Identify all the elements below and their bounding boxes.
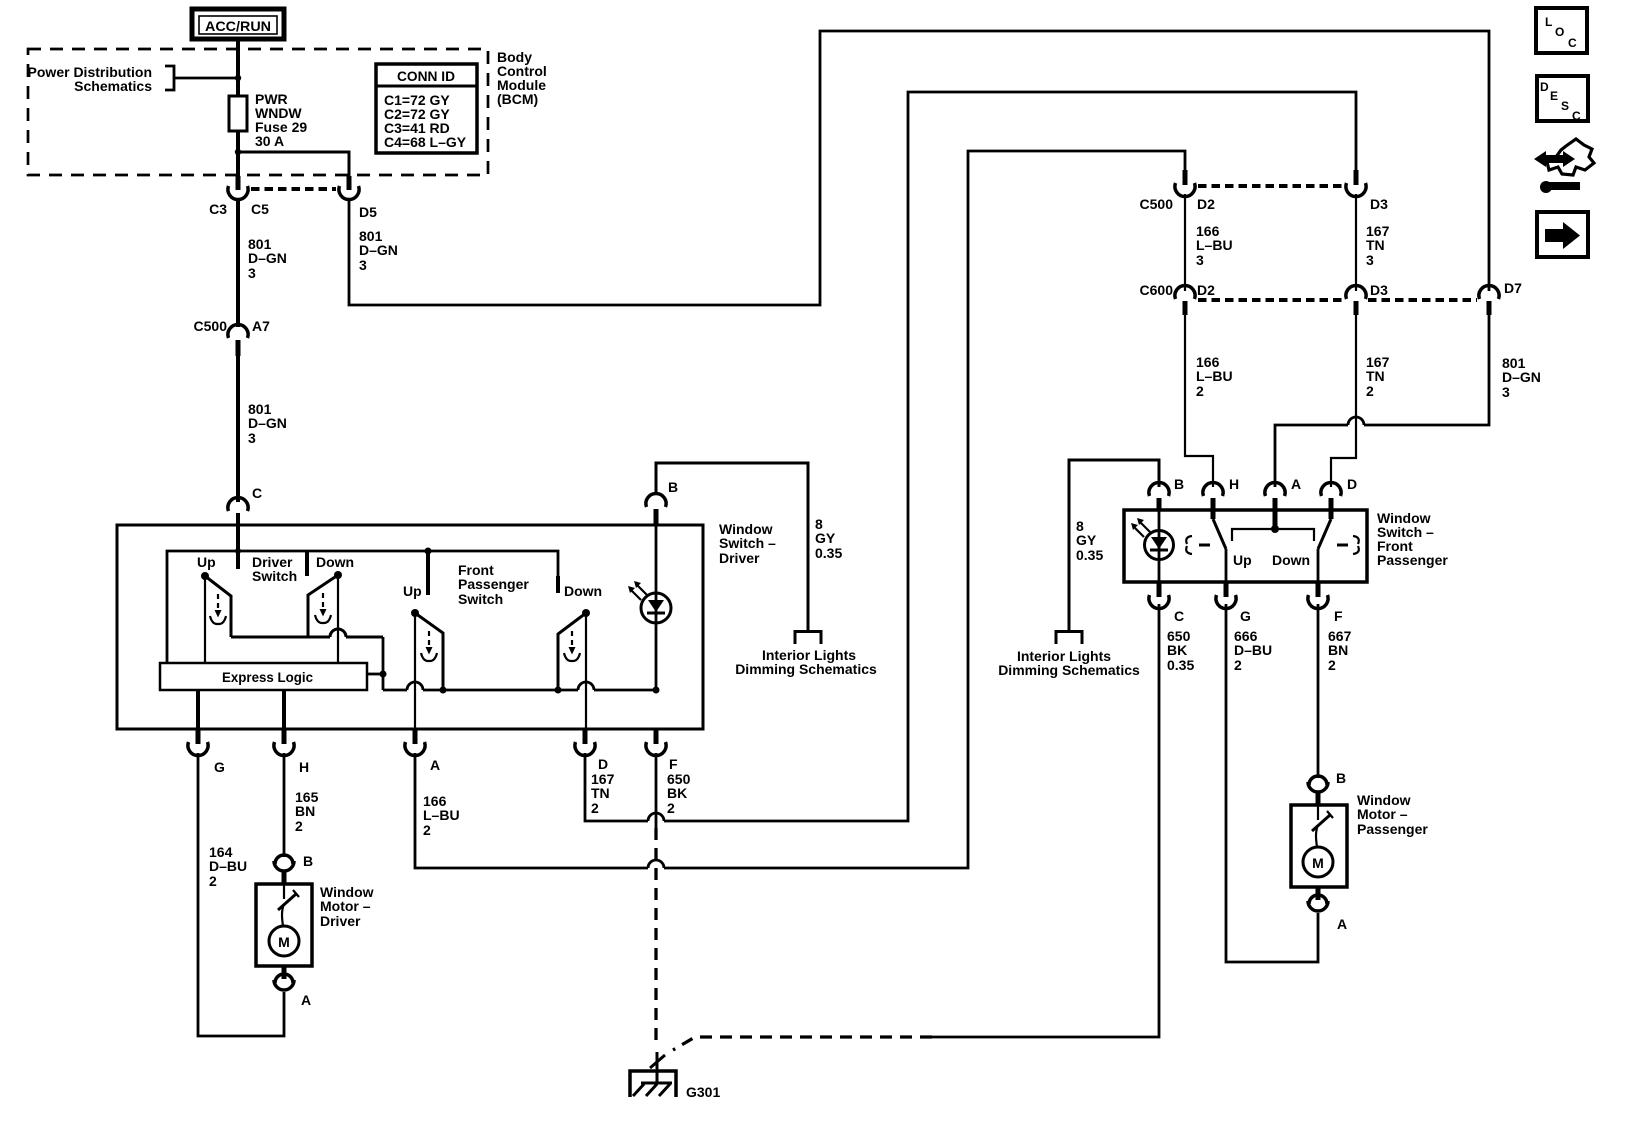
wire fuse to BCM edge: [236, 131, 240, 176]
passenger switch pin F: [1308, 582, 1328, 609]
wire hop over passenger up pivot: [407, 682, 423, 690]
svg-text:2: 2: [295, 818, 303, 834]
wire label 164 D-BU 2 (pin G): [209, 844, 247, 889]
passenger switch pin G: [1216, 582, 1236, 609]
connector C600 D2 pin: [1175, 285, 1195, 315]
wire 166 L-BU 3: [1184, 194, 1186, 291]
svg-text:C5: C5: [251, 201, 269, 217]
wire to express logic junction: [346, 636, 383, 639]
svg-text:2: 2: [1366, 383, 1374, 399]
svg-text:G: G: [214, 759, 225, 775]
svg-text:BN: BN: [1328, 642, 1348, 658]
express logic output to H: [282, 690, 286, 729]
svg-text:2: 2: [591, 800, 599, 816]
svg-text:D–GN: D–GN: [248, 415, 287, 431]
svg-text:CONN ID: CONN ID: [397, 68, 455, 84]
switch blade H-G (up): [1213, 519, 1226, 549]
label window switch driver: [719, 521, 776, 566]
svg-text:GY: GY: [815, 530, 836, 546]
connector D5 pin: [339, 176, 359, 200]
wire 650 BK 0.35 from C to ground path: [932, 604, 1159, 1037]
wire 650 BK dashed to G301: [654, 828, 657, 1048]
wire label 167 TN 2 (pin D): [591, 771, 615, 816]
svg-text:BK: BK: [667, 785, 687, 801]
window switch driver pin B entry: [646, 493, 666, 525]
stationary contact right: [1353, 536, 1359, 554]
svg-text:G: G: [1240, 608, 1251, 624]
stationary contact left: [1186, 536, 1192, 554]
passenger up stationary stub: [426, 551, 430, 595]
power source box ACC/RUN: [192, 9, 284, 39]
contact gap dash left: [1199, 544, 1210, 547]
connector C500 D2 pin: [1175, 170, 1195, 197]
svg-text:BN: BN: [295, 803, 315, 819]
svg-text:3: 3: [248, 265, 256, 281]
svg-text:L–BU: L–BU: [423, 807, 460, 823]
wire hop of 801 over 167 wire: [1348, 417, 1364, 425]
wire 650 BK solid part from F: [655, 753, 658, 828]
window switch front passenger outline: [1124, 510, 1367, 582]
svg-text:3: 3: [248, 430, 256, 446]
wire hop over down pivot: [330, 629, 346, 637]
wire label 650 BK 0.35: [1167, 628, 1194, 673]
passenger up switch blade: [411, 609, 443, 729]
svg-text:Switch: Switch: [458, 591, 503, 607]
svg-text:2: 2: [423, 822, 431, 838]
express logic box: [160, 663, 367, 690]
junction express logic output: [380, 671, 387, 678]
wire to driver switch B from dimming: [656, 463, 808, 631]
svg-text:F: F: [669, 756, 678, 772]
svg-text:B: B: [1174, 476, 1184, 492]
wire label 166 L-BU 3: [1196, 223, 1233, 268]
svg-text:D–GN: D–GN: [248, 250, 287, 266]
svg-text:2: 2: [1328, 657, 1336, 673]
svg-text:Driver: Driver: [719, 550, 760, 566]
connector body dashed C5-D5: [251, 187, 336, 191]
wire down to lower bus: [382, 637, 385, 690]
driver down stationary stub: [305, 551, 309, 576]
passenger switch pin B entry: [1149, 482, 1169, 510]
svg-text:D: D: [598, 756, 608, 772]
svg-text:L: L: [1545, 15, 1552, 29]
label interior lights dimming schematics: [998, 648, 1140, 678]
junction on bus at C: [235, 548, 241, 554]
svg-text:C4=68 L–GY: C4=68 L–GY: [384, 134, 467, 150]
wire 164 D-BU from G to motor A: [198, 753, 284, 1036]
wire passenger dimming feed: [1069, 460, 1159, 631]
junction: [235, 75, 241, 81]
driver down switch blade: [308, 571, 342, 663]
icon double-arrow scroll glyph: [1534, 139, 1594, 193]
svg-text:M: M: [1312, 855, 1324, 871]
junction passenger up blade: [440, 687, 447, 694]
driver switch pin F: [646, 729, 666, 756]
connector C3/C5 pin: [228, 176, 248, 200]
icon LOC navigation box: [1536, 8, 1587, 53]
svg-text:3: 3: [1196, 252, 1204, 268]
wire label 666 D-BU 2: [1234, 628, 1272, 673]
wire hop over F wire: [648, 813, 664, 821]
svg-text:Switch –: Switch –: [719, 535, 776, 551]
svg-text:F: F: [1334, 608, 1343, 624]
svg-text:Express Logic: Express Logic: [222, 669, 313, 685]
svg-text:L–BU: L–BU: [1196, 368, 1233, 384]
svg-text:M: M: [278, 934, 290, 950]
svg-text:D–GN: D–GN: [359, 242, 398, 258]
wire hop over F wire: [648, 860, 664, 868]
svg-text:D3: D3: [1370, 282, 1388, 298]
icon boxed arrow: [1537, 212, 1588, 257]
svg-text:Passenger: Passenger: [1377, 552, 1448, 568]
schematic reference bracket interior lights dimming (passenger): [1056, 632, 1082, 645]
svg-text:D7: D7: [1504, 280, 1522, 296]
wire 167 TN 2 to passenger switch D: [1331, 315, 1356, 487]
wire label 167 TN 3: [1366, 223, 1390, 268]
svg-text:A7: A7: [252, 318, 270, 334]
driver switch pin G: [188, 729, 208, 756]
wire 166 L-BU continues to C500 D2: [664, 151, 1185, 868]
connector C600 D3 pin: [1346, 285, 1366, 315]
wire 666 D-BU from G to motor A: [1226, 604, 1318, 962]
wire label 166 L-BU 2 (pin A): [423, 793, 460, 838]
svg-text:C500: C500: [194, 318, 228, 334]
svg-text:Up: Up: [403, 583, 422, 599]
schematic reference Power Distribution Schematics: [28, 64, 174, 94]
svg-text:0.35: 0.35: [1076, 547, 1103, 563]
svg-text:2: 2: [667, 800, 675, 816]
driver up stationary stub (wire C into box): [236, 525, 240, 569]
BCM dashed outline box: [28, 49, 488, 175]
wire 801 continues to A: [1275, 425, 1348, 487]
svg-text:O: O: [1555, 25, 1564, 39]
svg-text:2: 2: [1234, 657, 1242, 673]
svg-text:Motor –: Motor –: [1357, 806, 1408, 822]
wire tap to power distribution: [174, 77, 238, 80]
svg-text:C500: C500: [1140, 196, 1174, 212]
connector body dashed C600 D2-D3: [1198, 298, 1344, 302]
svg-text:A: A: [430, 757, 440, 773]
lower bus to LED wire: [594, 689, 656, 692]
junction A to bracket: [1271, 525, 1279, 533]
svg-text:BK: BK: [1167, 642, 1187, 658]
svg-text:ACC/RUN: ACC/RUN: [205, 18, 271, 34]
svg-text:A: A: [1291, 476, 1301, 492]
svg-text:3: 3: [1366, 252, 1374, 268]
wire label 801 D-GN 3 at D5: [359, 228, 398, 273]
svg-text:H: H: [1229, 476, 1239, 492]
label Driver Switch: [252, 554, 297, 584]
wire 166 L-BU 2 to passenger switch H: [1185, 315, 1213, 487]
label window motor driver: [320, 884, 374, 929]
svg-text:D: D: [1540, 80, 1549, 94]
svg-text:Dimming Schematics: Dimming Schematics: [735, 661, 877, 677]
svg-text:D3: D3: [1370, 196, 1388, 212]
junction below fuse: [235, 149, 241, 155]
svg-text:D5: D5: [359, 204, 377, 220]
svg-text:C: C: [1572, 109, 1581, 123]
wire label 8 GY 0.35: [1076, 518, 1103, 563]
inline connector window motor driver A: [274, 966, 294, 990]
bus end stub (down stationary contact passenger): [556, 576, 560, 593]
wire label 165 BN 2 (pin H): [295, 789, 319, 834]
wire joining driver blades: [231, 636, 330, 639]
stub from express logic box: [367, 673, 383, 676]
wire 167 TN from driver switch D going up to C500 D3: [585, 753, 648, 821]
wire label 667 BN 2: [1328, 628, 1352, 673]
junction passenger down blade: [555, 687, 562, 694]
ground G301: [630, 1052, 676, 1097]
switch blade D-F (down): [1318, 519, 1331, 549]
svg-text:D–BU: D–BU: [1234, 642, 1272, 658]
svg-text:B: B: [303, 853, 313, 869]
connector C500 D3 pin: [1346, 170, 1366, 197]
label Body Control Module (BCM): [497, 49, 547, 107]
wire label 801 D-GN 3: [248, 401, 287, 446]
CONN ID table: [376, 64, 477, 153]
fuse F29 PWR WNDW 30A: [229, 96, 247, 131]
svg-text:C: C: [252, 485, 262, 501]
driver switch pin D: [575, 729, 595, 756]
lower bus segment: [423, 689, 578, 692]
passenger switch pin A entry: [1265, 482, 1285, 529]
svg-text:B: B: [1336, 770, 1346, 786]
svg-text:30 A: 30 A: [255, 133, 284, 149]
wire branch to D5: [238, 152, 349, 176]
express logic output to G: [196, 690, 200, 729]
svg-text:3: 3: [359, 257, 367, 273]
svg-text:S: S: [1561, 99, 1569, 113]
label window switch front passenger: [1377, 510, 1448, 568]
wire 801 D-GN from C3: [236, 199, 240, 327]
svg-text:E: E: [1550, 89, 1558, 103]
rocker common bracket: [1232, 529, 1314, 541]
svg-text:D–BU: D–BU: [209, 858, 247, 874]
svg-text:3: 3: [1502, 384, 1510, 400]
svg-text:Up: Up: [197, 554, 216, 570]
window motor passenger: [1291, 805, 1347, 887]
inline connector C500/A7: [228, 324, 248, 356]
wire label 650 BK 2 (pin F): [667, 771, 691, 816]
passenger switch pin H entry: [1203, 482, 1223, 519]
svg-text:Down: Down: [316, 554, 354, 570]
svg-text:0.35: 0.35: [815, 545, 842, 561]
svg-text:D–GN: D–GN: [1502, 369, 1541, 385]
svg-text:Passenger: Passenger: [1357, 821, 1428, 837]
svg-text:C600: C600: [1140, 282, 1174, 298]
svg-text:(BCM): (BCM): [497, 91, 538, 107]
LED illumination (driver switch): [628, 525, 671, 690]
svg-text:B: B: [668, 479, 678, 495]
icon DESC navigation box: [1537, 76, 1588, 123]
svg-text:H: H: [299, 759, 309, 775]
svg-text:D2: D2: [1197, 196, 1215, 212]
inline connector window motor driver B: [274, 855, 294, 884]
wire label 8 GY 0.35: [815, 516, 842, 561]
wire label 166 L-BU 2: [1196, 354, 1233, 399]
svg-text:G301: G301: [686, 1084, 720, 1100]
wire 167 TN 3: [1355, 194, 1357, 291]
wire 801 D-GN to driver switch: [236, 356, 240, 502]
internal supply bus: [167, 551, 558, 663]
wire ACC/RUN to fuse: [236, 39, 240, 96]
svg-text:0.35: 0.35: [1167, 657, 1194, 673]
passenger down switch blade: [558, 609, 590, 729]
wire 667 BN from F to motor B: [1317, 604, 1320, 778]
svg-text:TN: TN: [1366, 237, 1385, 253]
contact gap dash right: [1337, 544, 1348, 547]
blade wire to G: [1225, 549, 1228, 582]
window switch driver pin C entry: [228, 497, 248, 525]
wire 166 L-BU from driver switch A going up to C500 D2: [415, 753, 648, 868]
window switch driver outline: [117, 525, 703, 729]
svg-text:Down: Down: [1272, 552, 1310, 568]
connector body dashed C600 D3-D7: [1368, 298, 1477, 302]
wire 801 D-GN from D5 to D7: [349, 31, 1489, 305]
svg-text:2: 2: [1196, 383, 1204, 399]
svg-text:Motor –: Motor –: [320, 898, 371, 914]
lower bus to LED: [383, 689, 407, 692]
svg-text:A: A: [1337, 916, 1347, 932]
svg-text:Schematics: Schematics: [74, 78, 152, 94]
driver switch pin H: [274, 729, 294, 756]
svg-text:Passenger: Passenger: [458, 576, 529, 592]
svg-text:Switch: Switch: [252, 568, 297, 584]
LED illumination (passenger switch): [1131, 510, 1174, 582]
window motor driver: [256, 884, 312, 966]
svg-text:GY: GY: [1076, 532, 1097, 548]
wire 650 BK dashed part to G301: [673, 1037, 932, 1050]
connector C600 D7 pin: [1479, 285, 1499, 315]
svg-text:Down: Down: [564, 583, 602, 599]
wire label 167 TN 2: [1366, 354, 1390, 399]
wire hop over passenger down pivot: [578, 682, 594, 690]
label window motor passenger: [1357, 792, 1428, 837]
svg-text:TN: TN: [591, 785, 610, 801]
wire 167 TN continues to C500 D3: [664, 92, 1356, 821]
junction at LED wire: [653, 687, 660, 694]
label interior lights dimming schematics: [735, 647, 877, 677]
svg-text:L–BU: L–BU: [1196, 237, 1233, 253]
svg-text:A: A: [301, 992, 311, 1008]
blade wire to F: [1317, 549, 1320, 582]
svg-text:C3: C3: [209, 201, 227, 217]
svg-text:Up: Up: [1233, 552, 1252, 568]
passenger switch pin D entry: [1321, 482, 1341, 519]
svg-text:C: C: [1174, 608, 1184, 624]
inline connector window motor passenger A: [1308, 887, 1328, 911]
svg-text:Dimming Schematics: Dimming Schematics: [998, 662, 1140, 678]
svg-text:2: 2: [209, 873, 217, 889]
wire label 801 D-GN 3: [1502, 355, 1541, 400]
svg-text:TN: TN: [1366, 368, 1385, 384]
svg-text:D: D: [1347, 476, 1357, 492]
passenger switch pin C: [1149, 582, 1169, 609]
label Front Passenger Switch: [458, 562, 529, 607]
schematic reference bracket interior lights dimming: [795, 632, 821, 645]
junction on bus for passenger up: [425, 548, 432, 555]
connector body dashed C500 D2-D3: [1198, 184, 1344, 188]
inline connector window motor passenger B: [1308, 776, 1328, 805]
wire 801 D-GN 2 from D7 to passenger switch A: [1364, 315, 1489, 425]
driver up switch blade: [201, 572, 231, 663]
svg-text:C: C: [1568, 36, 1577, 50]
svg-text:Driver: Driver: [320, 913, 361, 929]
wire 165 BN from H to motor B: [283, 753, 286, 857]
driver switch pin A: [405, 729, 425, 756]
wire label 801 D-GN 3: [248, 236, 287, 281]
svg-text:D2: D2: [1197, 282, 1215, 298]
